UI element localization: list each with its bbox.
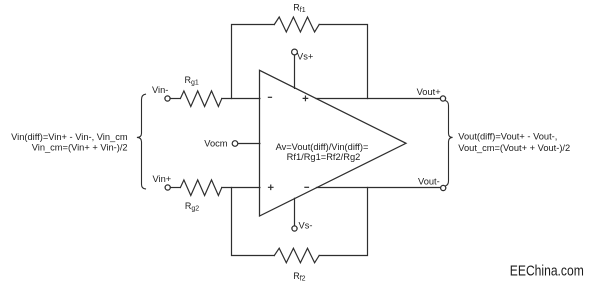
terminal Vin+ [165, 185, 170, 190]
wire top feedback loop left vertical [232, 25, 275, 99]
wire Vs+ to op-amp [294, 55, 296, 88]
resistor Rg2 [180, 180, 221, 196]
wire Vs- to op-amp [294, 198, 296, 226]
wire Rg1 to op-amp inverting input [222, 98, 260, 100]
resistor Rf2 [274, 248, 319, 263]
marker minus (Vout- side) [305, 186, 309, 188]
svg-text:Vin-: Vin- [152, 85, 168, 95]
svg-text:Rg1: Rg1 [185, 75, 199, 87]
wire Vin+ to Rg2 [170, 187, 180, 189]
svg-text:Vin+: Vin+ [153, 174, 172, 184]
svg-text:Vout+: Vout+ [417, 87, 441, 97]
svg-text:Vout-: Vout- [418, 177, 440, 187]
svg-text:Rg2: Rg2 [185, 201, 199, 213]
svg-text:Vs+: Vs+ [297, 51, 313, 61]
wire top feedback loop right vertical [319, 25, 367, 99]
wire Rg2 to op-amp non-inverting input [222, 187, 260, 189]
svg-text:EEChina.com: EEChina.com [510, 263, 584, 280]
wire Vout- output line [317, 187, 441, 189]
marker minus (inverting input) [268, 96, 271, 98]
svg-text:Vin(diff)=Vin+ - Vin-, Vin_cm: Vin(diff)=Vin+ - Vin-, Vin_cm [11, 132, 128, 142]
wire Vin- to Rg1 [170, 98, 180, 100]
brace right [446, 101, 453, 186]
svg-text:Vs-: Vs- [299, 220, 313, 230]
svg-text:Rf1/Rg1=Rf2/Rg2: Rf1/Rg1=Rf2/Rg2 [287, 152, 361, 162]
terminal Vout+ [440, 96, 445, 101]
marker plus (non-inverting input) [269, 185, 274, 189]
wire Vout+ output line [316, 98, 440, 100]
terminal Vin- [165, 96, 170, 101]
terminal Vs+ [292, 49, 298, 55]
svg-text:Vout(diff)=Vout+ - Vout-,: Vout(diff)=Vout+ - Vout-, [458, 132, 557, 142]
svg-text:Rf2: Rf2 [293, 271, 305, 283]
wire bottom feedback loop right vertical [319, 188, 367, 256]
terminal Vs- [292, 226, 297, 231]
wire Vocm to op-amp [238, 143, 260, 145]
resistor Rg1 [180, 91, 221, 107]
svg-text:Vocm: Vocm [204, 138, 228, 148]
svg-text:Rf1: Rf1 [293, 2, 305, 14]
terminal Vocm [232, 141, 238, 147]
svg-text:Vout_cm=(Vout+ + Vout-)/2: Vout_cm=(Vout+ + Vout-)/2 [458, 143, 570, 153]
marker plus (Vout+ side) [303, 96, 308, 101]
terminal Vout- [441, 185, 446, 190]
svg-text:Av=Vout(diff)/Vin(diff)=: Av=Vout(diff)/Vin(diff)= [276, 142, 369, 152]
svg-text:Vin_cm=(Vin+ + Vin-)/2: Vin_cm=(Vin+ + Vin-)/2 [32, 143, 128, 153]
wire bottom feedback loop left vertical [232, 188, 275, 256]
op-amp U1 [260, 70, 407, 216]
resistor Rf1 [274, 17, 319, 32]
brace left [137, 94, 146, 189]
